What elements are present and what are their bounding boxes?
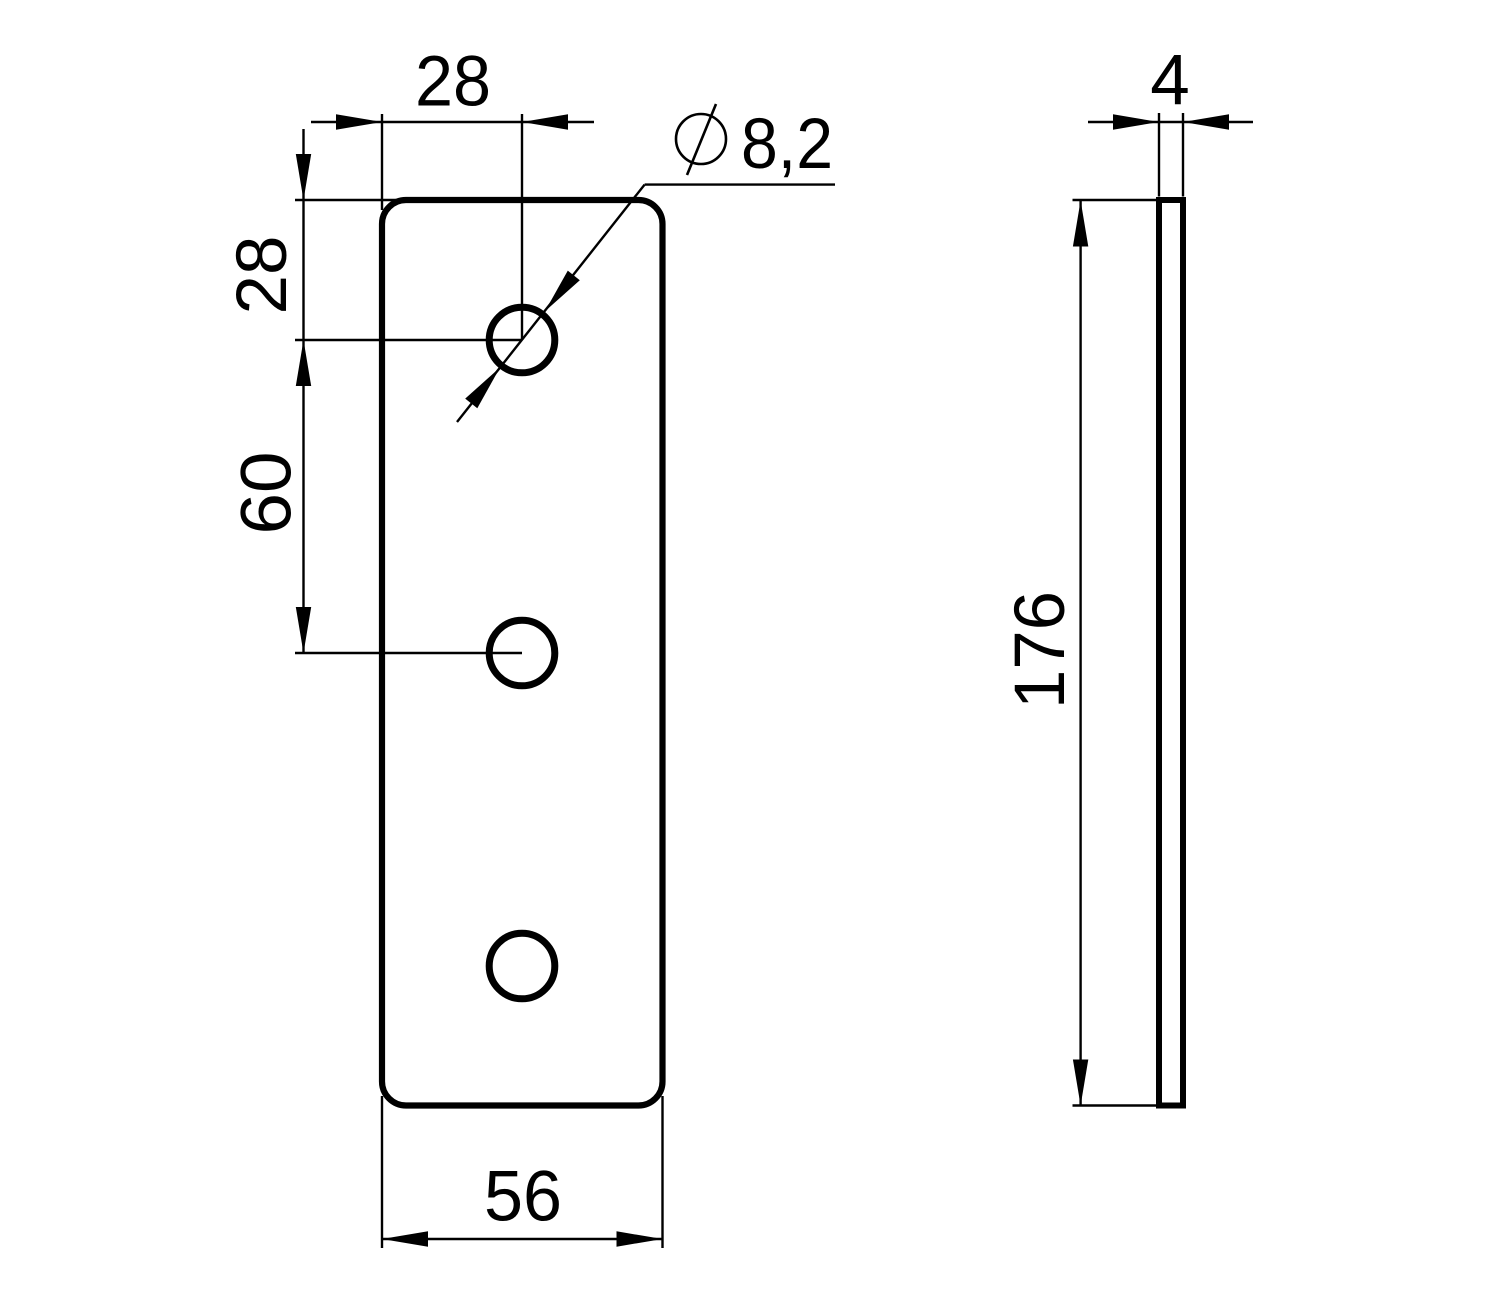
dimension 176: bottom extension line	[1073, 1104, 1185, 1106]
hole H2 (middle)	[489, 620, 555, 686]
svg-text:28: 28	[223, 236, 302, 315]
diameter symbol circle	[676, 114, 726, 164]
diameter symbol slash	[687, 104, 716, 175]
hole diameter leader: diagonal line through hole H1	[457, 185, 645, 422]
plate outline (front view)	[382, 200, 663, 1106]
plate outline (side view)	[1159, 200, 1183, 1106]
dimension 28 horizontal: right arrowhead	[522, 114, 568, 129]
dimension 4: left extension line	[1158, 113, 1160, 197]
dimension 28 vertical: downward arrowhead at plate top edge	[296, 154, 311, 200]
hole H3 (bottom)	[489, 933, 555, 999]
dimension 28 horizontal: dimension line	[311, 121, 594, 123]
dimension 28 vertical: extension line at plate top edge	[295, 199, 400, 201]
dimension 176: downward arrowhead	[1073, 1060, 1088, 1106]
dimension 28/60 vertical: extension/centre line at hole H1	[295, 339, 522, 341]
dimension 56: right extension line	[661, 1096, 663, 1248]
svg-text:56: 56	[484, 1158, 562, 1237]
dimension 56: left extension line	[381, 1096, 383, 1248]
svg-text:4: 4	[1150, 41, 1190, 120]
svg-text:60: 60	[228, 452, 307, 535]
hole diameter leader: lower arrowhead	[465, 368, 500, 409]
hole H1 (top)	[489, 307, 555, 373]
dimension 60 vertical: upward arrowhead at hole H1	[296, 340, 311, 386]
dimension 56: right arrowhead	[617, 1231, 663, 1246]
hole diameter leader: horizontal landing line	[645, 183, 835, 185]
svg-text:8,2: 8,2	[741, 105, 833, 184]
dimension 4: right arrowhead	[1183, 114, 1229, 129]
dimension 4: left arrowhead	[1113, 114, 1159, 129]
dimension 4: right extension line	[1182, 113, 1184, 197]
svg-text:176: 176	[1001, 591, 1080, 709]
hole diameter leader: upper arrowhead	[545, 271, 580, 312]
dimension 28/60 vertical: shared dimension line	[302, 129, 304, 653]
dimension 60 vertical: downward arrowhead at hole H2	[296, 607, 311, 653]
dimension 60 vertical: extension/centre line at hole H2	[295, 652, 522, 654]
dimension 176: top extension line	[1073, 199, 1157, 201]
dimension 28 horizontal: left arrowhead	[336, 114, 382, 129]
dimension 176: upward arrowhead	[1073, 201, 1088, 247]
dimension 56: dimension line	[382, 1238, 663, 1240]
dimension 56: left arrowhead	[382, 1231, 428, 1246]
svg-text:28: 28	[415, 43, 491, 122]
dimension 28 horizontal: extension line at plate left edge	[381, 114, 383, 210]
dimension 4: dimension line	[1088, 121, 1253, 123]
dimension 176: dimension line	[1079, 200, 1081, 1106]
dimension 28 horizontal: extension/centre line at hole H1	[521, 114, 523, 340]
